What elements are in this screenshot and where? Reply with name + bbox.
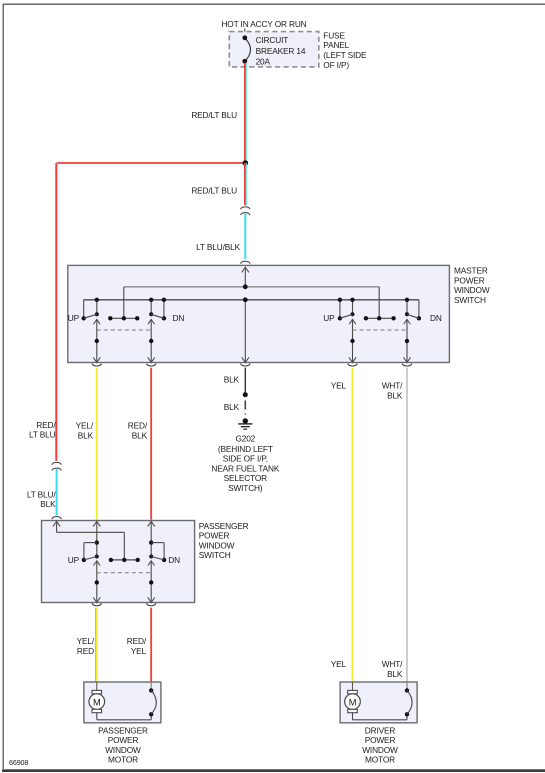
svg-text:WINDOW: WINDOW (199, 540, 235, 550)
svg-text:FUSE: FUSE (323, 30, 345, 40)
svg-text:BLK: BLK (387, 669, 403, 679)
svg-text:SWITCH: SWITCH (454, 295, 486, 305)
svg-text:RED: RED (77, 646, 94, 656)
svg-text:MOTOR: MOTOR (108, 755, 138, 765)
svg-text:PASSENGER: PASSENGER (98, 725, 148, 735)
svg-text:POWER: POWER (108, 735, 139, 745)
svg-text:RED/LT BLU: RED/LT BLU (191, 110, 237, 120)
svg-text:BREAKER 14: BREAKER 14 (256, 46, 306, 56)
svg-text:BLK: BLK (132, 430, 148, 440)
svg-text:YEL: YEL (331, 659, 347, 669)
svg-text:(BEHIND LEFT: (BEHIND LEFT (218, 444, 273, 454)
svg-text:LT BLU/BLK: LT BLU/BLK (196, 242, 240, 252)
svg-text:YEL/: YEL/ (77, 636, 95, 646)
svg-text:PANEL: PANEL (323, 40, 349, 50)
svg-text:POWER: POWER (365, 735, 396, 745)
svg-text:WHT/: WHT/ (382, 381, 403, 391)
svg-text:M: M (93, 697, 101, 707)
svg-text:NEAR FUEL TANK: NEAR FUEL TANK (211, 463, 279, 473)
svg-text:WINDOW: WINDOW (362, 745, 398, 755)
svg-text:RED/LT BLU: RED/LT BLU (191, 185, 237, 195)
svg-text:OF I/P): OF I/P) (323, 60, 349, 70)
svg-text:POWER: POWER (199, 531, 230, 541)
svg-text:G202: G202 (235, 433, 255, 443)
svg-text:UP: UP (68, 313, 80, 323)
svg-text:HOT IN ACCY OR RUN: HOT IN ACCY OR RUN (221, 19, 306, 29)
svg-text:UP: UP (323, 313, 335, 323)
svg-text:YEL: YEL (131, 646, 147, 656)
svg-text:CIRCUIT: CIRCUIT (256, 35, 289, 45)
svg-text:DN: DN (430, 313, 442, 323)
svg-text:MASTER: MASTER (454, 266, 488, 276)
svg-text:BLK: BLK (387, 390, 403, 400)
svg-text:BLK: BLK (78, 430, 94, 440)
svg-text:POWER: POWER (454, 275, 485, 285)
svg-text:DN: DN (173, 313, 185, 323)
svg-text:20A: 20A (256, 56, 271, 66)
svg-text:M: M (349, 697, 357, 707)
svg-text:DRIVER: DRIVER (365, 725, 396, 735)
svg-text:BLK: BLK (224, 402, 240, 412)
svg-text:YEL/: YEL/ (76, 421, 94, 431)
svg-text:PASSENGER: PASSENGER (199, 521, 249, 531)
svg-text:MOTOR: MOTOR (365, 755, 395, 765)
svg-text:RED/: RED/ (128, 421, 148, 431)
svg-text:SIDE OF I/P,: SIDE OF I/P, (223, 454, 268, 464)
svg-text:(LEFT SIDE: (LEFT SIDE (323, 50, 367, 60)
svg-text:DN: DN (168, 555, 180, 565)
svg-text:SWITCH): SWITCH) (228, 483, 263, 493)
svg-text:BLK: BLK (40, 499, 56, 509)
svg-text:RED/: RED/ (127, 636, 147, 646)
svg-text:SELECTOR: SELECTOR (224, 473, 268, 483)
svg-text:WINDOW: WINDOW (454, 285, 490, 295)
svg-text:BLK: BLK (224, 374, 240, 384)
svg-text:RED/: RED/ (36, 420, 56, 430)
svg-text:UP: UP (68, 555, 80, 565)
svg-text:SWITCH: SWITCH (199, 550, 231, 560)
svg-text:YEL: YEL (331, 381, 347, 391)
svg-text:LT BLU: LT BLU (29, 430, 56, 440)
svg-text:WHT/: WHT/ (382, 659, 403, 669)
svg-text:WINDOW: WINDOW (105, 745, 141, 755)
svg-text:LT BLU/: LT BLU/ (27, 489, 56, 499)
svg-text:66908: 66908 (9, 758, 28, 767)
